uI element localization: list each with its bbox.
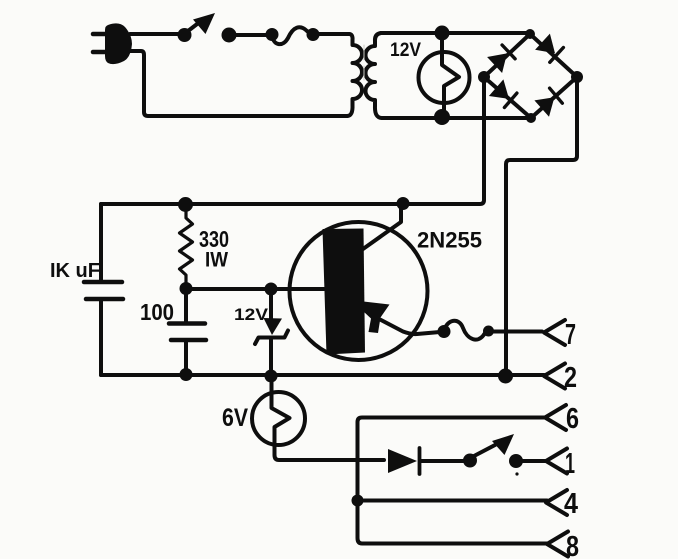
svg-text:IW: IW (205, 249, 228, 272)
svg-text:8: 8 (566, 531, 579, 559)
svg-text:2: 2 (564, 362, 577, 394)
svg-text:2N255: 2N255 (417, 228, 482, 253)
svg-text:IK uF: IK uF (50, 260, 100, 282)
svg-text:4: 4 (564, 488, 578, 520)
svg-text:6: 6 (566, 403, 579, 435)
svg-text:7: 7 (565, 319, 576, 351)
svg-text:6V: 6V (222, 404, 248, 432)
svg-text:100: 100 (140, 299, 174, 325)
svg-text:12V: 12V (234, 305, 269, 324)
svg-text:12V: 12V (390, 40, 421, 61)
svg-text:1: 1 (565, 448, 575, 480)
